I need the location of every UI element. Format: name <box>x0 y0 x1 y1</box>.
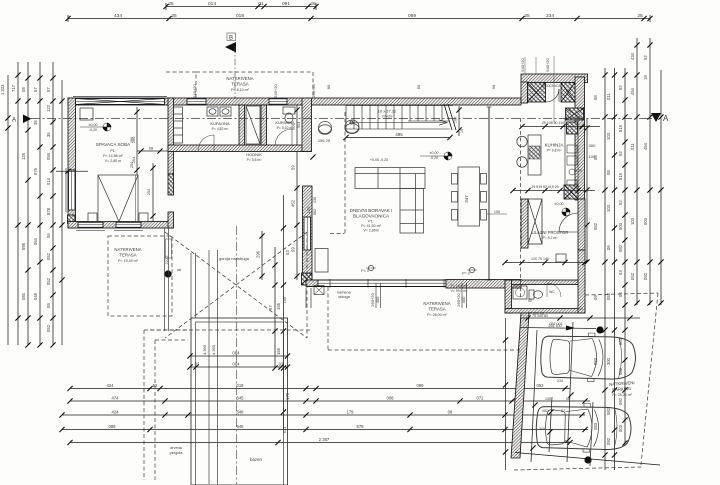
svg-text:052: 052 <box>46 252 51 260</box>
svg-text:310: 310 <box>539 427 545 431</box>
svg-text:NATKRIVENA: NATKRIVENA <box>114 247 141 252</box>
svg-text:004: 004 <box>232 362 240 367</box>
svg-text:254: 254 <box>131 156 136 163</box>
svg-text:100: 100 <box>454 117 458 123</box>
svg-text:kamena: kamena <box>337 291 351 295</box>
svg-text:082: 082 <box>606 407 611 415</box>
svg-text:KUPAONA: KUPAONA <box>275 120 295 125</box>
svg-text:003: 003 <box>618 222 623 230</box>
svg-text:P= 41,50 m²: P= 41,50 m² <box>361 224 381 228</box>
svg-text:092: 092 <box>606 437 611 445</box>
svg-text:062: 062 <box>313 209 317 215</box>
svg-text:515: 515 <box>618 172 623 180</box>
svg-text:03: 03 <box>285 250 290 255</box>
svg-text:59: 59 <box>291 165 296 170</box>
svg-text:092: 092 <box>618 397 623 405</box>
svg-text:06: 06 <box>606 245 611 250</box>
svg-text:052: 052 <box>630 272 635 280</box>
svg-text:515: 515 <box>618 124 623 132</box>
svg-text:P1:: P1: <box>368 220 373 224</box>
svg-text:-0,20: -0,20 <box>574 169 582 173</box>
svg-text:671: 671 <box>282 426 287 433</box>
svg-text:25: 25 <box>310 1 316 7</box>
svg-text:150: 150 <box>494 210 500 214</box>
svg-text:52: 52 <box>618 85 623 90</box>
svg-text:103: 103 <box>606 204 611 212</box>
svg-text:400: 400 <box>461 296 466 303</box>
svg-text:014: 014 <box>46 177 51 185</box>
svg-text:548: 548 <box>237 410 245 415</box>
svg-text:V= 2,80m: V= 2,80m <box>363 229 378 233</box>
svg-text:WC: WC <box>549 290 555 294</box>
svg-text:P= 28,00 m²: P= 28,00 m² <box>427 313 447 317</box>
svg-text:155: 155 <box>282 296 287 303</box>
svg-text:019: 019 <box>237 383 245 388</box>
svg-text:80: 80 <box>416 84 421 89</box>
svg-text:454: 454 <box>643 142 648 150</box>
svg-text:10: 10 <box>460 129 464 133</box>
svg-text:P= 4,62 m²: P= 4,62 m² <box>212 127 230 131</box>
svg-text:717: 717 <box>11 84 16 92</box>
svg-text:1.323: 1.323 <box>0 84 5 95</box>
svg-text:540+20: 540+20 <box>520 58 525 72</box>
svg-text:125: 125 <box>21 152 26 160</box>
svg-text:052: 052 <box>593 222 598 230</box>
svg-text:gornja nadstruga: gornja nadstruga <box>219 256 250 261</box>
svg-text:HODNIK: HODNIK <box>246 152 262 157</box>
svg-text:18: 18 <box>643 75 648 80</box>
svg-text:35: 35 <box>46 132 51 137</box>
svg-text:495: 495 <box>395 132 403 137</box>
svg-text:-0,20: -0,20 <box>89 128 97 132</box>
svg-text:400: 400 <box>375 296 380 303</box>
svg-text:P= 9,8 m²: P= 9,8 m² <box>547 149 563 153</box>
svg-text:ULAZNI PROSTOR: ULAZNI PROSTOR <box>532 230 569 235</box>
svg-text:25 515 52 515 25: 25 515 52 515 25 <box>531 185 558 189</box>
svg-text:25: 25 <box>524 13 530 19</box>
svg-text:A: A <box>663 114 669 123</box>
svg-text:06: 06 <box>46 233 51 238</box>
svg-text:52: 52 <box>618 200 623 205</box>
svg-text:01: 01 <box>258 1 264 7</box>
svg-text:57: 57 <box>46 87 51 92</box>
svg-text:08: 08 <box>448 410 453 415</box>
svg-text:474: 474 <box>112 396 120 401</box>
svg-text:P= 18,0 m²: P= 18,0 m² <box>451 284 469 288</box>
svg-text:011: 011 <box>630 143 635 150</box>
svg-text:52: 52 <box>643 55 648 60</box>
svg-text:drvena: drvena <box>170 446 182 450</box>
svg-text:KUHINJA: KUHINJA <box>545 143 564 148</box>
svg-text:02: 02 <box>279 362 284 367</box>
svg-text:80: 80 <box>326 84 331 89</box>
svg-text:TERASA: TERASA <box>119 253 136 258</box>
svg-text:100: 100 <box>589 154 596 159</box>
svg-text:68: 68 <box>149 147 153 151</box>
svg-text:234: 234 <box>557 379 563 383</box>
svg-text:08: 08 <box>566 397 570 401</box>
svg-text:TERASA: TERASA <box>428 307 445 312</box>
svg-text:003: 003 <box>618 424 623 432</box>
svg-text:57 001 08: 57 001 08 <box>528 312 544 316</box>
svg-text:bazen: bazen <box>250 457 263 462</box>
svg-text:V= 99,0 m²: V= 99,0 m² <box>451 289 469 293</box>
svg-text:120 75 140: 120 75 140 <box>531 257 549 261</box>
svg-text:BLAGOVAONICA: BLAGOVAONICA <box>353 214 390 219</box>
svg-text:140: 140 <box>577 307 583 311</box>
svg-text:290: 290 <box>131 136 136 143</box>
svg-text:±0,00: ±0,00 <box>430 151 439 155</box>
svg-text:540+20: 540+20 <box>545 58 550 72</box>
svg-text:obloga: obloga <box>338 295 350 299</box>
svg-text:089: 089 <box>408 13 416 19</box>
svg-text:±0,00: ±0,00 <box>89 123 98 127</box>
svg-text:075: 075 <box>33 167 38 175</box>
svg-text:57: 57 <box>33 87 38 92</box>
svg-text:595: 595 <box>21 242 26 250</box>
svg-text:089: 089 <box>109 424 117 429</box>
svg-text:155: 155 <box>276 302 281 310</box>
svg-text:082: 082 <box>542 409 548 413</box>
svg-text:008: 008 <box>387 396 395 401</box>
svg-text:052 001: 052 001 <box>550 322 563 326</box>
svg-text:08: 08 <box>593 95 598 100</box>
svg-text:08: 08 <box>606 170 611 175</box>
svg-text:A: A <box>12 117 17 124</box>
svg-text:155: 155 <box>276 347 281 355</box>
svg-text:59: 59 <box>291 247 296 252</box>
svg-text:234: 234 <box>546 13 554 19</box>
svg-text:003: 003 <box>643 217 648 225</box>
svg-text:424: 424 <box>112 410 120 415</box>
svg-text:430: 430 <box>313 197 317 203</box>
svg-text:092: 092 <box>643 272 648 280</box>
svg-text:083: 083 <box>593 422 598 430</box>
svg-text:878: 878 <box>46 207 51 215</box>
svg-text:90: 90 <box>491 84 496 89</box>
svg-text:2222: 2222 <box>164 255 169 265</box>
svg-text:018: 018 <box>236 13 244 19</box>
svg-text:TERASA: TERASA <box>231 82 248 87</box>
svg-text:300: 300 <box>606 357 611 365</box>
svg-text:2 387: 2 387 <box>319 437 330 442</box>
svg-text:P= 28,26 m²: P= 28,26 m² <box>612 393 632 397</box>
svg-text:DNEVNI BORAVAK I: DNEVNI BORAVAK I <box>350 208 393 213</box>
svg-text:156 25: 156 25 <box>318 138 331 143</box>
svg-text:545: 545 <box>237 396 245 401</box>
svg-text:25: 25 <box>171 13 177 19</box>
svg-text:424: 424 <box>107 383 115 388</box>
svg-text:240+20: 240+20 <box>192 84 197 98</box>
svg-text:57: 57 <box>268 305 273 310</box>
svg-text:150: 150 <box>306 206 311 213</box>
svg-text:P= 5,2 m²: P= 5,2 m² <box>543 236 559 240</box>
svg-text:240+20: 240+20 <box>273 84 278 98</box>
svg-text:122: 122 <box>46 104 51 112</box>
svg-text:300: 300 <box>589 143 596 148</box>
svg-text:084: 084 <box>21 292 26 300</box>
svg-text:052: 052 <box>537 383 545 388</box>
svg-text:+0,05 -0,20: +0,05 -0,20 <box>370 158 388 162</box>
svg-text:130: 130 <box>545 397 551 401</box>
svg-text:434: 434 <box>630 52 635 60</box>
svg-text:103: 103 <box>606 132 611 140</box>
svg-text:P= 5,10 m²: P= 5,10 m² <box>277 126 295 130</box>
svg-text:011: 011 <box>606 93 611 100</box>
svg-text:084: 084 <box>232 351 240 356</box>
svg-text:434: 434 <box>114 13 122 19</box>
svg-text:314: 314 <box>296 121 301 128</box>
svg-text:V= 2,80 m: V= 2,80 m <box>105 159 121 163</box>
svg-text:SPAVACA SOBA: SPAVACA SOBA <box>96 142 131 147</box>
svg-text:014: 014 <box>208 1 216 7</box>
svg-text:NATKRIVENA: NATKRIVENA <box>423 301 450 306</box>
svg-text:27x29: 27x29 <box>382 114 394 119</box>
svg-text:P= 5,8 m²: P= 5,8 m² <box>247 158 263 162</box>
svg-text:083: 083 <box>593 357 598 365</box>
svg-text:25: 25 <box>637 13 643 19</box>
svg-text:055: 055 <box>46 152 51 160</box>
svg-text:347: 347 <box>464 195 469 203</box>
svg-text:35: 35 <box>33 120 38 125</box>
svg-text:091: 091 <box>282 1 290 7</box>
svg-text:03: 03 <box>618 270 623 275</box>
svg-text:osl: osl <box>177 268 182 272</box>
svg-text:296: 296 <box>256 250 261 258</box>
svg-text:179: 179 <box>347 410 355 415</box>
svg-text:240+20: 240+20 <box>311 84 316 98</box>
svg-text:089: 089 <box>417 383 425 388</box>
svg-text:25: 25 <box>168 1 174 7</box>
svg-text:P= 0: P= 0 <box>361 269 369 273</box>
svg-text:4 390: 4 390 <box>202 344 207 355</box>
svg-text:NATKRIVENA: NATKRIVENA <box>226 76 253 81</box>
svg-text:57: 57 <box>561 409 565 413</box>
svg-text:P= 8,10 m²: P= 8,10 m² <box>231 88 249 92</box>
svg-text:082: 082 <box>618 244 623 252</box>
svg-text:052: 052 <box>606 292 611 300</box>
svg-text:09: 09 <box>593 295 598 300</box>
svg-text:579: 579 <box>357 424 365 429</box>
svg-text:P1:: P1: <box>110 149 115 153</box>
svg-text:103: 103 <box>630 217 635 225</box>
svg-text:09: 09 <box>46 303 51 308</box>
svg-text:P= 14,56 m²: P= 14,56 m² <box>103 154 123 158</box>
svg-text:pergola: pergola <box>170 451 184 455</box>
svg-text:048: 048 <box>33 292 38 300</box>
svg-text:±0,00: ±0,00 <box>555 202 564 206</box>
svg-text:072: 072 <box>477 396 485 401</box>
svg-text:4 360: 4 360 <box>211 344 216 355</box>
svg-text:454: 454 <box>630 87 635 95</box>
svg-text:052: 052 <box>46 277 51 285</box>
svg-text:90: 90 <box>528 299 532 303</box>
svg-text:08: 08 <box>21 87 26 92</box>
svg-text:KUPAONA: KUPAONA <box>210 121 230 126</box>
svg-text:052: 052 <box>46 324 51 332</box>
svg-text:452: 452 <box>291 199 296 207</box>
svg-text:-0,20: -0,20 <box>430 156 438 160</box>
svg-text:545: 545 <box>237 424 245 429</box>
svg-text:SMOCNICA: SMOCNICA <box>542 84 562 88</box>
svg-text:52: 52 <box>618 151 623 156</box>
svg-text:254: 254 <box>147 189 151 195</box>
svg-text:25 108 80 110: 25 108 80 110 <box>542 121 564 125</box>
svg-text:064: 064 <box>33 237 38 245</box>
svg-text:P= 0: P= 0 <box>462 272 470 276</box>
svg-text:P= 15,49 m²: P= 15,49 m² <box>118 259 138 263</box>
svg-text:02: 02 <box>195 362 200 367</box>
